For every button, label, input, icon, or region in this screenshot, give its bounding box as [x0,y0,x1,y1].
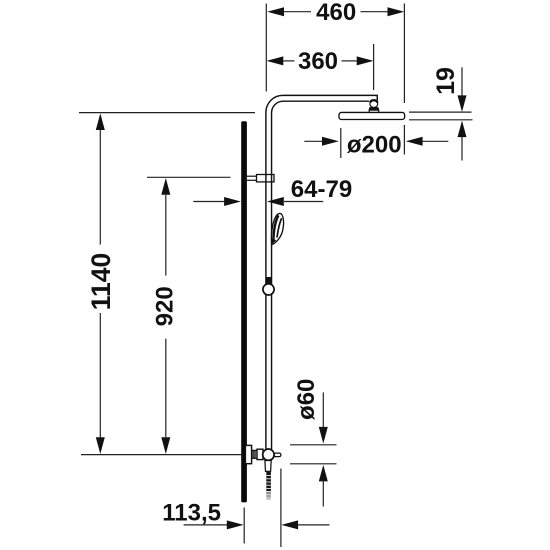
svg-text:19: 19 [432,67,460,95]
svg-text:64-79: 64-79 [291,176,352,203]
svg-text:113,5: 113,5 [162,499,221,526]
svg-text:460: 460 [316,0,356,26]
svg-text:920: 920 [152,286,179,326]
svg-text:ø60: ø60 [293,379,320,420]
svg-text:360: 360 [298,48,338,75]
svg-text:1140: 1140 [86,253,116,311]
svg-text:ø200: ø200 [347,132,402,159]
